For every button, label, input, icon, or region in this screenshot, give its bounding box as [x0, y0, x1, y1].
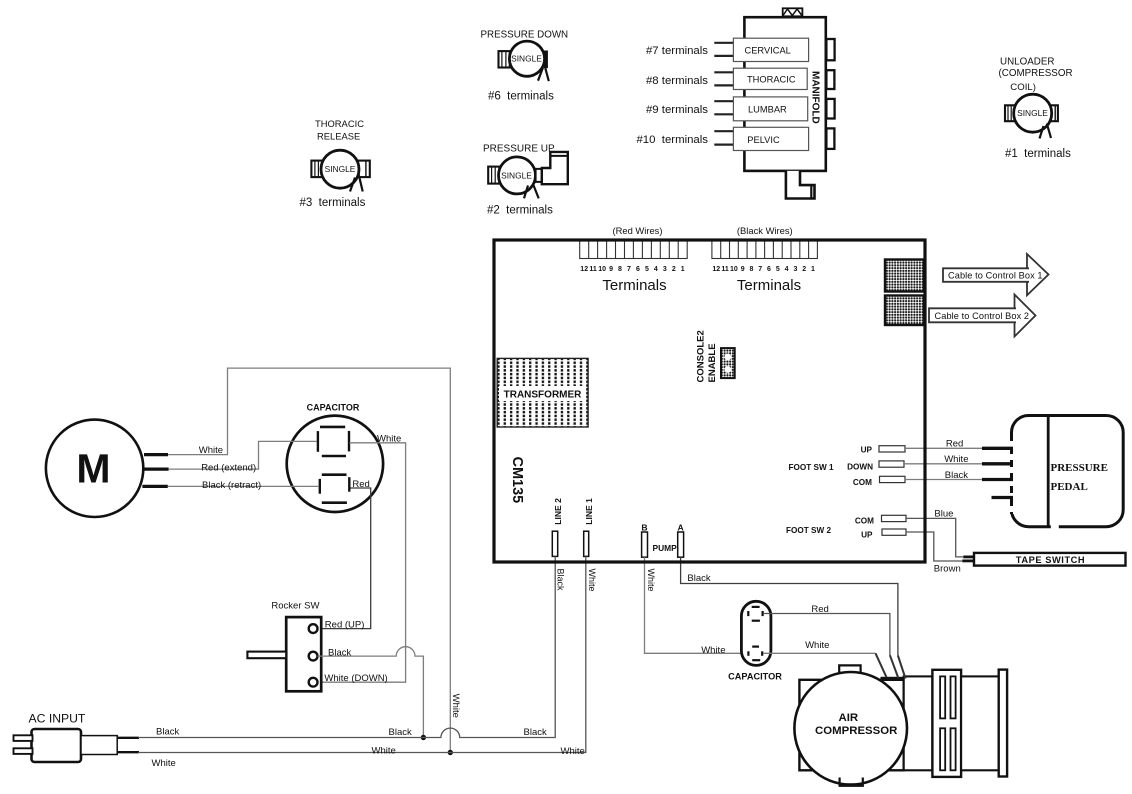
wire motor black retract — [168, 485, 319, 487]
svg-text:2: 2 — [672, 266, 676, 273]
svg-text:UP: UP — [861, 446, 873, 455]
svg-text:#2 terminals: #2 terminals — [487, 205, 553, 217]
svg-text:#3 terminals: #3 terminals — [300, 197, 366, 209]
svg-text:1: 1 — [811, 266, 815, 273]
capacitor (compressor) — [728, 601, 782, 681]
svg-text:CAPACITOR: CAPACITOR — [307, 403, 360, 413]
svg-text:Red: Red — [811, 604, 828, 615]
svg-text:#6 terminals: #6 terminals — [488, 91, 554, 103]
svg-text:White: White — [944, 454, 968, 465]
svg-text:PUMP: PUMP — [653, 543, 678, 553]
connector to control box 1 (dotted) — [885, 260, 924, 292]
svg-text:M: M — [76, 446, 110, 492]
svg-text:7: 7 — [627, 266, 631, 273]
wire motor white loop — [168, 368, 450, 752]
svg-text:White: White — [701, 645, 725, 656]
air compressor plate — [799, 680, 903, 771]
svg-text:PEDAL: PEDAL — [1051, 481, 1088, 493]
air compressor vent block — [932, 670, 961, 777]
tape switch — [974, 553, 1126, 566]
transformer — [497, 358, 588, 427]
svg-text:SINGLE: SINGLE — [511, 54, 542, 64]
control board CM135 fill — [494, 240, 925, 562]
svg-text:11: 11 — [721, 266, 729, 273]
svg-text:Brown: Brown — [934, 564, 961, 575]
manifold outlet bracket 1 — [826, 39, 834, 60]
wire black diagonal into compressor — [898, 656, 906, 679]
console2 enable jumper connector — [721, 348, 735, 378]
svg-text:RELEASE: RELEASE — [317, 131, 360, 142]
solenoid valve UNLOADER (#1) — [999, 57, 1073, 161]
svg-text:AIR: AIR — [838, 712, 858, 724]
capacitor (motor) — [287, 403, 383, 512]
AC input plug — [14, 712, 140, 763]
svg-text:CM135: CM135 — [509, 457, 525, 504]
PELVIC valve box — [714, 127, 808, 150]
svg-text:White: White — [372, 746, 396, 757]
motor terminal stub white — [144, 453, 168, 456]
svg-text:5: 5 — [645, 266, 649, 273]
svg-text:Black: Black — [687, 573, 710, 584]
svg-text:Red (extend): Red (extend) — [201, 463, 256, 474]
svg-text:FOOT SW 1: FOOT SW 1 — [789, 463, 834, 472]
arrow Cable to Control Box 1 — [943, 254, 1049, 295]
svg-text:TAPE SWITCH: TAPE SWITCH — [1016, 555, 1085, 565]
pressure pedal — [1006, 416, 1123, 531]
svg-text:LINE 2: LINE 2 — [553, 498, 563, 525]
svg-text:(Black Wires): (Black Wires) — [737, 225, 793, 236]
svg-text:12: 12 — [712, 266, 720, 273]
svg-text:A: A — [677, 522, 683, 532]
svg-text:Black: Black — [524, 727, 547, 738]
air compressor body — [904, 676, 933, 770]
solenoid valve PRESSURE UP (#2) — [483, 144, 568, 217]
svg-text:White (DOWN): White (DOWN) — [324, 673, 387, 684]
manifold outlet bracket 3 — [826, 99, 834, 119]
svg-text:7: 7 — [758, 266, 762, 273]
rocker switch — [247, 601, 321, 692]
wire white through capacitor to compressor — [763, 652, 875, 654]
svg-text:Terminals: Terminals — [737, 277, 801, 294]
svg-text:Rocker SW: Rocker SW — [271, 601, 319, 612]
svg-text:3: 3 — [663, 266, 667, 273]
svg-text:#9 terminals: #9 terminals — [646, 104, 708, 116]
connector to control box 2 (dotted) — [885, 296, 924, 326]
svg-text:FOOT SW 2: FOOT SW 2 — [786, 526, 831, 535]
svg-text:(Red Wires): (Red Wires) — [612, 225, 662, 236]
arrow Cable to Control Box 2 — [929, 295, 1036, 337]
air compressor rear housing — [961, 676, 999, 770]
svg-text:White: White — [152, 758, 176, 769]
solenoid valve THORACIC RELEASE (#3) — [300, 118, 370, 209]
air compressor end cap — [999, 670, 1007, 777]
svg-text:Terminals: Terminals — [602, 277, 666, 294]
wire capacitor white to rocker — [318, 443, 406, 682]
wire foot sw 1 DOWN white — [904, 463, 982, 465]
svg-text:5: 5 — [776, 266, 780, 273]
motor M — [46, 420, 143, 517]
svg-text:Black: Black — [389, 727, 412, 738]
svg-text:9: 9 — [741, 266, 745, 273]
pedal stub wire — [992, 496, 1014, 499]
svg-text:TRANSFORMER: TRANSFORMER — [504, 389, 583, 400]
svg-text:Cable to Control Box 1: Cable to Control Box 1 — [948, 271, 1043, 281]
svg-text:#10 terminals: #10 terminals — [636, 134, 708, 146]
svg-text:Black: Black — [156, 727, 179, 738]
manifold outlet bracket 2 — [826, 70, 834, 89]
svg-text:8: 8 — [618, 266, 622, 273]
svg-text:SINGLE: SINGLE — [325, 164, 356, 174]
svg-text:MANIFOLD: MANIFOLD — [810, 71, 821, 124]
wire foot sw 1 UP red — [905, 447, 982, 449]
svg-text:PRESSURE DOWN: PRESSURE DOWN — [481, 30, 569, 41]
svg-text:Red: Red — [946, 439, 963, 450]
terminal strip 1 pin numbers — [580, 266, 684, 273]
wire white diagonal into compressor — [876, 653, 887, 677]
svg-text:COIL): COIL) — [1010, 82, 1036, 93]
svg-text:6: 6 — [636, 266, 640, 273]
svg-text:PRESSURE UP: PRESSURE UP — [483, 144, 555, 155]
svg-text:White: White — [561, 746, 585, 757]
manifold outlet bracket 4 — [826, 128, 834, 149]
svg-text:11: 11 — [589, 266, 597, 273]
wire pump A black — [681, 557, 898, 655]
svg-text:#1 terminals: #1 terminals — [1005, 148, 1071, 160]
svg-text:White: White — [646, 569, 656, 592]
manifold top fitting — [783, 8, 803, 16]
svg-text:DOWN: DOWN — [847, 462, 873, 471]
svg-text:(COMPRESSOR: (COMPRESSOR — [999, 68, 1073, 79]
svg-text:3: 3 — [793, 266, 797, 273]
wire pump B white — [645, 557, 748, 653]
THORACIC valve box — [714, 68, 807, 89]
svg-text:COM: COM — [855, 516, 874, 525]
motor terminal stub red — [143, 467, 169, 470]
svg-text:#8 terminals: #8 terminals — [646, 75, 708, 87]
svg-text:UP: UP — [861, 530, 873, 539]
air compressor circle — [794, 672, 907, 785]
svg-text:B: B — [641, 522, 647, 532]
wire AC black with hop to LINE 2 — [138, 556, 555, 737]
svg-text:White: White — [450, 694, 461, 718]
wire motor red extend — [169, 441, 317, 469]
svg-text:4: 4 — [654, 266, 658, 273]
svg-text:Red: Red — [352, 479, 369, 490]
wire foot sw 2 UP brown — [906, 532, 962, 561]
air compressor terminal bar — [881, 677, 905, 680]
wire red diagonal into compressor — [890, 655, 898, 678]
svg-text:Black: Black — [945, 470, 968, 481]
wire foot sw 1 COM black — [905, 479, 982, 481]
manifold bottom pipe — [786, 171, 815, 199]
svg-text:LINE 1: LINE 1 — [584, 498, 594, 525]
CERVICAL valve box — [714, 38, 808, 61]
svg-text:4: 4 — [785, 266, 789, 273]
LUMBAR valve box — [714, 97, 807, 121]
svg-text:Cable to Control Box 2: Cable to Control Box 2 — [935, 311, 1030, 321]
svg-text:White: White — [805, 640, 829, 651]
svg-text:THORACIC: THORACIC — [315, 118, 364, 129]
wire foot sw 2 COM blue — [906, 518, 963, 557]
svg-text:THORACIC: THORACIC — [747, 75, 796, 85]
svg-text:8: 8 — [750, 266, 754, 273]
wire AC white to LINE 1 — [138, 556, 586, 752]
svg-text:Black: Black — [555, 569, 565, 592]
junction dot rocker black to AC black — [421, 735, 426, 740]
svg-text:SINGLE: SINGLE — [1017, 108, 1048, 118]
svg-text:ENABLE: ENABLE — [707, 343, 718, 382]
svg-text:COM: COM — [853, 478, 872, 487]
svg-text:PELVIC: PELVIC — [747, 135, 780, 145]
solenoid valve PRESSURE DOWN (#6) — [481, 30, 569, 103]
svg-text:LUMBAR: LUMBAR — [748, 105, 787, 115]
svg-text:AC INPUT: AC INPUT — [29, 712, 86, 726]
svg-text:CAPACITOR: CAPACITOR — [728, 671, 782, 681]
svg-text:Black (retract): Black (retract) — [202, 480, 261, 491]
control board CM135 border — [494, 240, 925, 562]
junction dot white vertical to AC white — [448, 750, 453, 755]
svg-text:Blue: Blue — [934, 508, 953, 519]
svg-text:12: 12 — [580, 266, 588, 273]
svg-text:PRESSURE: PRESSURE — [1051, 462, 1108, 474]
svg-text:2: 2 — [802, 266, 806, 273]
svg-text:6: 6 — [767, 266, 771, 273]
svg-text:9: 9 — [609, 266, 613, 273]
svg-text:White: White — [377, 434, 401, 445]
air compressor top tab — [839, 665, 860, 679]
manifold body — [744, 17, 825, 171]
svg-text:UNLOADER: UNLOADER — [1000, 57, 1054, 68]
terminal strip 2 (black wires) — [712, 241, 818, 259]
svg-text:1: 1 — [681, 266, 685, 273]
svg-text:COMPRESSOR: COMPRESSOR — [815, 725, 897, 737]
wire capacitor red to compressor — [763, 614, 890, 656]
air compressor bottom tab — [840, 778, 863, 786]
terminal strip 2 pin numbers — [712, 266, 815, 273]
svg-text:10: 10 — [598, 266, 606, 273]
svg-text:#7 terminals: #7 terminals — [646, 45, 708, 57]
terminal strip 1 (red wires) — [580, 241, 688, 259]
svg-text:CERVICAL: CERVICAL — [745, 46, 791, 56]
svg-text:SINGLE: SINGLE — [501, 170, 532, 180]
wire rocker black with hop — [318, 647, 424, 738]
motor terminal stub black — [142, 485, 167, 488]
svg-text:CONSOLE2: CONSOLE2 — [696, 330, 707, 382]
wire capacitor red to rocker — [318, 488, 371, 629]
svg-text:White: White — [587, 569, 597, 592]
svg-text:Red (UP): Red (UP) — [325, 619, 365, 630]
svg-text:White: White — [199, 445, 223, 456]
svg-text:10: 10 — [730, 266, 738, 273]
